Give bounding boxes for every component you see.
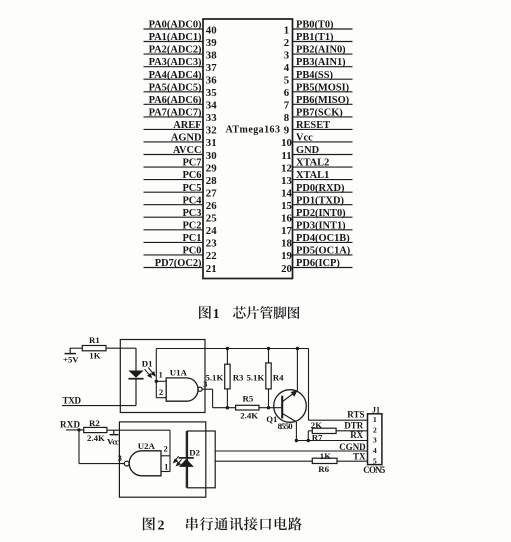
svg-text:8550: 8550 xyxy=(278,421,294,431)
svg-text:2K: 2K xyxy=(311,420,322,430)
resistor R7 2K xyxy=(312,428,336,433)
wire pin 1 (right PB0(T0)) xyxy=(293,28,353,30)
svg-text:J1: J1 xyxy=(372,406,380,415)
svg-text:5.1K: 5.1K xyxy=(205,373,223,383)
svg-text:DTR: DTR xyxy=(344,420,364,430)
svg-text:10: 10 xyxy=(281,137,292,149)
wire pin 35 (left PA5(ADC5)) xyxy=(144,91,204,93)
svg-text:PA7(ADC7): PA7(ADC7) xyxy=(149,108,202,119)
svg-text:21: 21 xyxy=(206,263,217,275)
svg-text:5.1K: 5.1K xyxy=(246,373,264,383)
svg-text:XTAL1: XTAL1 xyxy=(296,170,329,181)
wire pin 32 (left AREF) xyxy=(144,128,204,130)
svg-text:2: 2 xyxy=(159,388,163,397)
power Vcc tap xyxy=(113,430,115,435)
svg-text:4: 4 xyxy=(284,62,290,74)
wire pin 16 (right PD2(INT0)) xyxy=(293,216,353,218)
svg-text:30: 30 xyxy=(206,150,217,162)
caption fig2 图2 串行通讯接口电路 xyxy=(143,517,155,530)
svg-text:38: 38 xyxy=(206,49,217,61)
wire pin 34 (left PA6(ADC6)) xyxy=(144,103,204,105)
svg-text:D1: D1 xyxy=(142,359,153,369)
wire pin 37 (left PA3(ADC3)) xyxy=(144,66,204,68)
wire R2 to Vcc and U2A inputs xyxy=(107,429,170,431)
transistor Q1 8550 xyxy=(274,390,307,423)
svg-text:CON5: CON5 xyxy=(363,465,386,475)
svg-text:1K: 1K xyxy=(89,351,100,361)
svg-text:1K: 1K xyxy=(320,451,331,461)
wire pin 4 (right PB3(AIN1)) xyxy=(293,66,353,68)
svg-text:17: 17 xyxy=(281,225,292,237)
svg-text:PD5(OC1A): PD5(OC1A) xyxy=(296,246,350,257)
wire pin 2 (right PB1(T1)) xyxy=(293,41,353,43)
svg-text:PC5: PC5 xyxy=(182,183,201,194)
svg-text:U2A: U2A xyxy=(138,441,156,451)
svg-text:3: 3 xyxy=(373,436,377,445)
svg-text:PA6(ADC6): PA6(ADC6) xyxy=(149,95,202,106)
wire pin 21 (left PD7(OC2)) xyxy=(144,267,204,269)
svg-text:25: 25 xyxy=(206,213,217,225)
U1A pin 2 stub xyxy=(156,397,166,399)
svg-text:28: 28 xyxy=(206,175,217,187)
wire pin 25 (left PC3) xyxy=(144,216,204,218)
svg-text:36: 36 xyxy=(206,75,217,87)
D1 light arrows xyxy=(145,368,155,378)
U1A pin 3 output wire xyxy=(202,388,213,390)
svg-text:1: 1 xyxy=(159,370,163,379)
wire RXD to R2 xyxy=(66,429,84,431)
svg-text:U1A: U1A xyxy=(170,368,188,378)
wire pin 11 (right GND) xyxy=(293,154,353,156)
svg-text:16: 16 xyxy=(281,213,292,225)
wire pin 36 (left PA4(ADC4)) xyxy=(144,78,204,80)
wire pin 17 (right PD3(INT1)) xyxy=(293,229,353,231)
svg-text:24: 24 xyxy=(206,225,217,237)
svg-text:1: 1 xyxy=(213,306,220,321)
chip U ATmega163 body xyxy=(203,19,293,279)
wire pin 6 (right PB5(MOSI)) xyxy=(293,91,353,93)
svg-text:1: 1 xyxy=(284,24,289,36)
svg-text:15: 15 xyxy=(281,200,292,212)
svg-text:37: 37 xyxy=(206,62,217,74)
svg-text:23: 23 xyxy=(206,238,217,250)
svg-text:RXD: RXD xyxy=(60,419,81,429)
svg-text:PA2(ADC2): PA2(ADC2) xyxy=(149,45,202,56)
wire pin 26 (left PC4) xyxy=(144,204,204,206)
wire pin 5 (right PB4(SS)) xyxy=(293,78,353,80)
U2A pin 2 stub xyxy=(161,455,170,457)
svg-text:12: 12 xyxy=(281,162,292,174)
svg-text:34: 34 xyxy=(206,100,217,112)
svg-text:PB7(SCK): PB7(SCK) xyxy=(296,108,343,119)
wire pin 18 (right PD4(OC1B)) xyxy=(293,241,353,243)
resistor R3 5.1K xyxy=(226,349,228,365)
svg-text:PD4(OC1B): PD4(OC1B) xyxy=(296,233,350,244)
svg-text:1: 1 xyxy=(164,463,168,472)
wire Q1 collector down to RX node xyxy=(295,422,297,441)
wire +5V to R1 xyxy=(70,347,82,349)
caption fig1 图1 芯片管脚图 xyxy=(199,306,211,319)
svg-text:39: 39 xyxy=(206,37,217,49)
svg-text:AGND: AGND xyxy=(171,133,202,144)
svg-text:R3: R3 xyxy=(233,373,244,383)
svg-text:PB4(SS): PB4(SS) xyxy=(296,70,333,81)
svg-text:R6: R6 xyxy=(318,464,329,474)
svg-text:PA5(ADC5): PA5(ADC5) xyxy=(149,82,202,93)
wire Q1 emitter to rail xyxy=(296,349,298,391)
svg-text:7: 7 xyxy=(284,100,290,112)
svg-text:AREF: AREF xyxy=(173,120,201,131)
wire pin 24 (left PC2) xyxy=(144,229,204,231)
wire R7 left down to RX node xyxy=(308,430,312,432)
svg-text:2.4K: 2.4K xyxy=(240,411,258,421)
wire pin 29 (left PC7) xyxy=(144,166,204,168)
svg-text:PD6(ICP): PD6(ICP) xyxy=(296,258,340,269)
wire pin 31 (left AGND) xyxy=(144,141,204,143)
svg-text:D2: D2 xyxy=(189,447,200,457)
svg-text:PA3(ADC3): PA3(ADC3) xyxy=(149,57,202,68)
wire pin 20 (right PD6(ICP)) xyxy=(293,267,353,269)
svg-text:Vcc: Vcc xyxy=(107,437,119,447)
svg-text:PB0(T0): PB0(T0) xyxy=(296,20,334,31)
U2A pin 1 stub xyxy=(161,471,170,473)
wire pin 13 (right XTAL1) xyxy=(293,179,353,181)
svg-text:19: 19 xyxy=(281,250,292,262)
op-amp gate U1A xyxy=(166,378,198,401)
svg-text:+5V: +5V xyxy=(63,355,79,365)
svg-text:PD7(OC2): PD7(OC2) xyxy=(155,258,202,269)
wire RXD branch down to U2A output xyxy=(78,430,80,464)
wire R1 to D1 anode xyxy=(106,347,136,349)
svg-text:R2: R2 xyxy=(89,418,100,428)
resistor R1 1K xyxy=(82,346,106,351)
svg-text:2: 2 xyxy=(373,425,377,434)
wire pin 33 (left PA7(ADC7)) xyxy=(144,116,204,118)
svg-text:18: 18 xyxy=(281,238,292,250)
connector J1 CON5 xyxy=(368,414,382,465)
svg-text:11: 11 xyxy=(281,150,291,162)
svg-text:PC7: PC7 xyxy=(182,158,201,169)
power +5V xyxy=(65,353,77,355)
svg-text:3: 3 xyxy=(118,454,122,463)
wire pin 12 (right XTAL2) xyxy=(293,166,353,168)
svg-text:R4: R4 xyxy=(273,373,284,383)
svg-text:1: 1 xyxy=(373,415,377,424)
svg-text:14: 14 xyxy=(281,188,292,200)
wire U1A out to R5 xyxy=(213,407,236,409)
svg-text:4: 4 xyxy=(373,446,377,455)
LED D2 xyxy=(185,431,187,458)
LED D2 package box xyxy=(188,431,216,488)
wire CGND line xyxy=(215,450,367,452)
wire TX line xyxy=(215,460,312,462)
svg-text:PC3: PC3 xyxy=(182,208,201,219)
wire pin 27 (left PC5) xyxy=(144,191,204,193)
wire U2A input rail down xyxy=(169,430,171,471)
wire pin 3 (right PB2(AIN0)) xyxy=(293,53,353,55)
svg-text:PA1(ADC1): PA1(ADC1) xyxy=(149,32,202,43)
svg-text:RX: RX xyxy=(350,430,363,440)
svg-text:PB1(T1): PB1(T1) xyxy=(296,32,334,43)
wire pin 14 (right PD0(RXD)) xyxy=(293,191,353,193)
optocoupler package box 1 xyxy=(120,340,205,413)
svg-text:8: 8 xyxy=(284,112,290,124)
svg-text:TX: TX xyxy=(353,452,366,462)
svg-text:PC4: PC4 xyxy=(182,195,201,206)
svg-text:AVCC: AVCC xyxy=(173,145,202,156)
wire pin 15 (right PD1(TXD)) xyxy=(293,204,353,206)
wire pin 40 (left PA0(ADC0)) xyxy=(144,28,204,30)
svg-text:22: 22 xyxy=(206,250,217,262)
svg-text:TXD: TXD xyxy=(63,395,82,405)
svg-text:Vcc: Vcc xyxy=(296,133,313,144)
resistor R2 2.4K xyxy=(84,427,107,432)
wire RTS line xyxy=(309,419,368,421)
svg-text:13: 13 xyxy=(281,175,292,187)
svg-text:PB2(AIN0): PB2(AIN0) xyxy=(296,45,346,56)
svg-text:RTS: RTS xyxy=(347,410,364,420)
svg-text:R5: R5 xyxy=(243,394,254,404)
svg-text:32: 32 xyxy=(206,125,217,137)
svg-text:PC6: PC6 xyxy=(182,170,201,181)
svg-text:GND: GND xyxy=(296,145,319,156)
wire pin 23 (left PC1) xyxy=(144,241,204,243)
svg-text:PA4(ADC4): PA4(ADC4) xyxy=(149,70,202,81)
svg-text:XTAL2: XTAL2 xyxy=(296,158,329,169)
wire RX line xyxy=(296,440,367,442)
op-amp gate U2A (mirrored) xyxy=(129,451,161,476)
svg-text:PC0: PC0 xyxy=(182,246,201,257)
svg-text:ATmega163: ATmega163 xyxy=(226,125,281,136)
svg-text:PC1: PC1 xyxy=(182,233,201,244)
svg-text:PD0(RXD): PD0(RXD) xyxy=(296,183,344,194)
svg-text:PB3(AIN1): PB3(AIN1) xyxy=(296,57,346,68)
wire R5 to Q1 base xyxy=(259,407,282,409)
svg-text:3: 3 xyxy=(284,49,290,61)
svg-text:RESET: RESET xyxy=(296,120,330,131)
wire TXD to D1 cathode xyxy=(62,405,136,407)
svg-text:PD3(INT1): PD3(INT1) xyxy=(296,220,346,231)
svg-text:2: 2 xyxy=(164,445,168,454)
wire pin 8 (right PB7(SCK)) xyxy=(293,116,353,118)
svg-text:CGND: CGND xyxy=(339,442,366,452)
svg-text:5: 5 xyxy=(373,456,377,465)
svg-text:5: 5 xyxy=(284,75,289,87)
svg-text:R1: R1 xyxy=(89,335,100,345)
svg-text:PC2: PC2 xyxy=(182,220,201,231)
svg-text:2: 2 xyxy=(158,517,165,532)
wire pin 22 (left PC0) xyxy=(144,254,204,256)
svg-text:6: 6 xyxy=(284,87,290,99)
wire pin 10 (right Vcc) xyxy=(293,141,353,143)
wire pin 38 (left PA2(ADC2)) xyxy=(144,53,204,55)
svg-text:PA0(ADC0): PA0(ADC0) xyxy=(149,20,202,31)
svg-text:35: 35 xyxy=(206,87,217,99)
wire pin 19 (right PD5(OC1A)) xyxy=(293,254,353,256)
wire pin 9 (right RESET) xyxy=(293,128,353,130)
svg-text:PB6(MISO): PB6(MISO) xyxy=(296,95,349,106)
resistor R5 2.4K xyxy=(236,405,259,410)
svg-text:40: 40 xyxy=(206,24,217,36)
wire pin 7 (right PB6(MISO)) xyxy=(293,103,353,105)
D2 light arrows xyxy=(174,456,182,465)
svg-text:9: 9 xyxy=(284,125,290,137)
svg-text:PD1(TXD): PD1(TXD) xyxy=(296,195,344,206)
svg-text:20: 20 xyxy=(281,263,292,275)
svg-text:27: 27 xyxy=(206,188,217,200)
svg-text:26: 26 xyxy=(206,200,217,212)
wire pin 28 (left PC6) xyxy=(144,179,204,181)
LED D1 xyxy=(135,348,137,370)
svg-text:2: 2 xyxy=(284,37,289,49)
svg-text:PB5(MOSI): PB5(MOSI) xyxy=(296,82,349,93)
wire rail down to RTS xyxy=(308,349,310,421)
optocoupler package box 2 xyxy=(119,422,205,497)
U1A pin 1 stub xyxy=(156,380,166,382)
wire pin 39 (left PA1(ADC1)) xyxy=(144,41,204,43)
svg-text:33: 33 xyxy=(206,112,217,124)
svg-text:2.4K: 2.4K xyxy=(87,433,105,443)
resistor R4 5.1K xyxy=(268,349,270,363)
wire rail down to U1A inputs xyxy=(155,349,157,398)
svg-text:Q1: Q1 xyxy=(266,414,277,424)
wire pin 30 (left AVCC) xyxy=(144,154,204,156)
wire top rail +V xyxy=(156,348,308,350)
resistor R6 1K xyxy=(312,458,337,463)
svg-text:29: 29 xyxy=(206,162,217,174)
svg-text:31: 31 xyxy=(206,137,217,149)
svg-text:PD2(INT0): PD2(INT0) xyxy=(296,208,346,219)
wire DTR line xyxy=(336,430,367,432)
